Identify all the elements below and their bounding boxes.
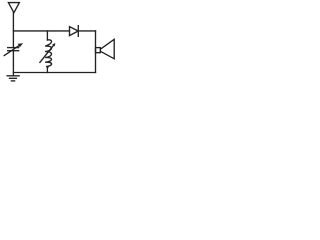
antenna: [8, 3, 19, 13]
ground: [7, 76, 19, 81]
speaker LS1: [96, 39, 115, 59]
wire inductor top stub: [46, 31, 48, 40]
wire inductor bottom stub: [46, 67, 48, 72]
wire antenna lead: [12, 13, 14, 48]
diode D1: [70, 26, 79, 37]
wire top rail: [13, 30, 69, 32]
variable capacitor C1: [4, 43, 23, 55]
wire right vertical: [95, 31, 97, 73]
wire bottom rail: [13, 72, 95, 74]
wire capacitor to ground: [12, 51, 14, 76]
wire diode to corner: [78, 30, 95, 32]
variable inductor L1: [40, 40, 56, 68]
